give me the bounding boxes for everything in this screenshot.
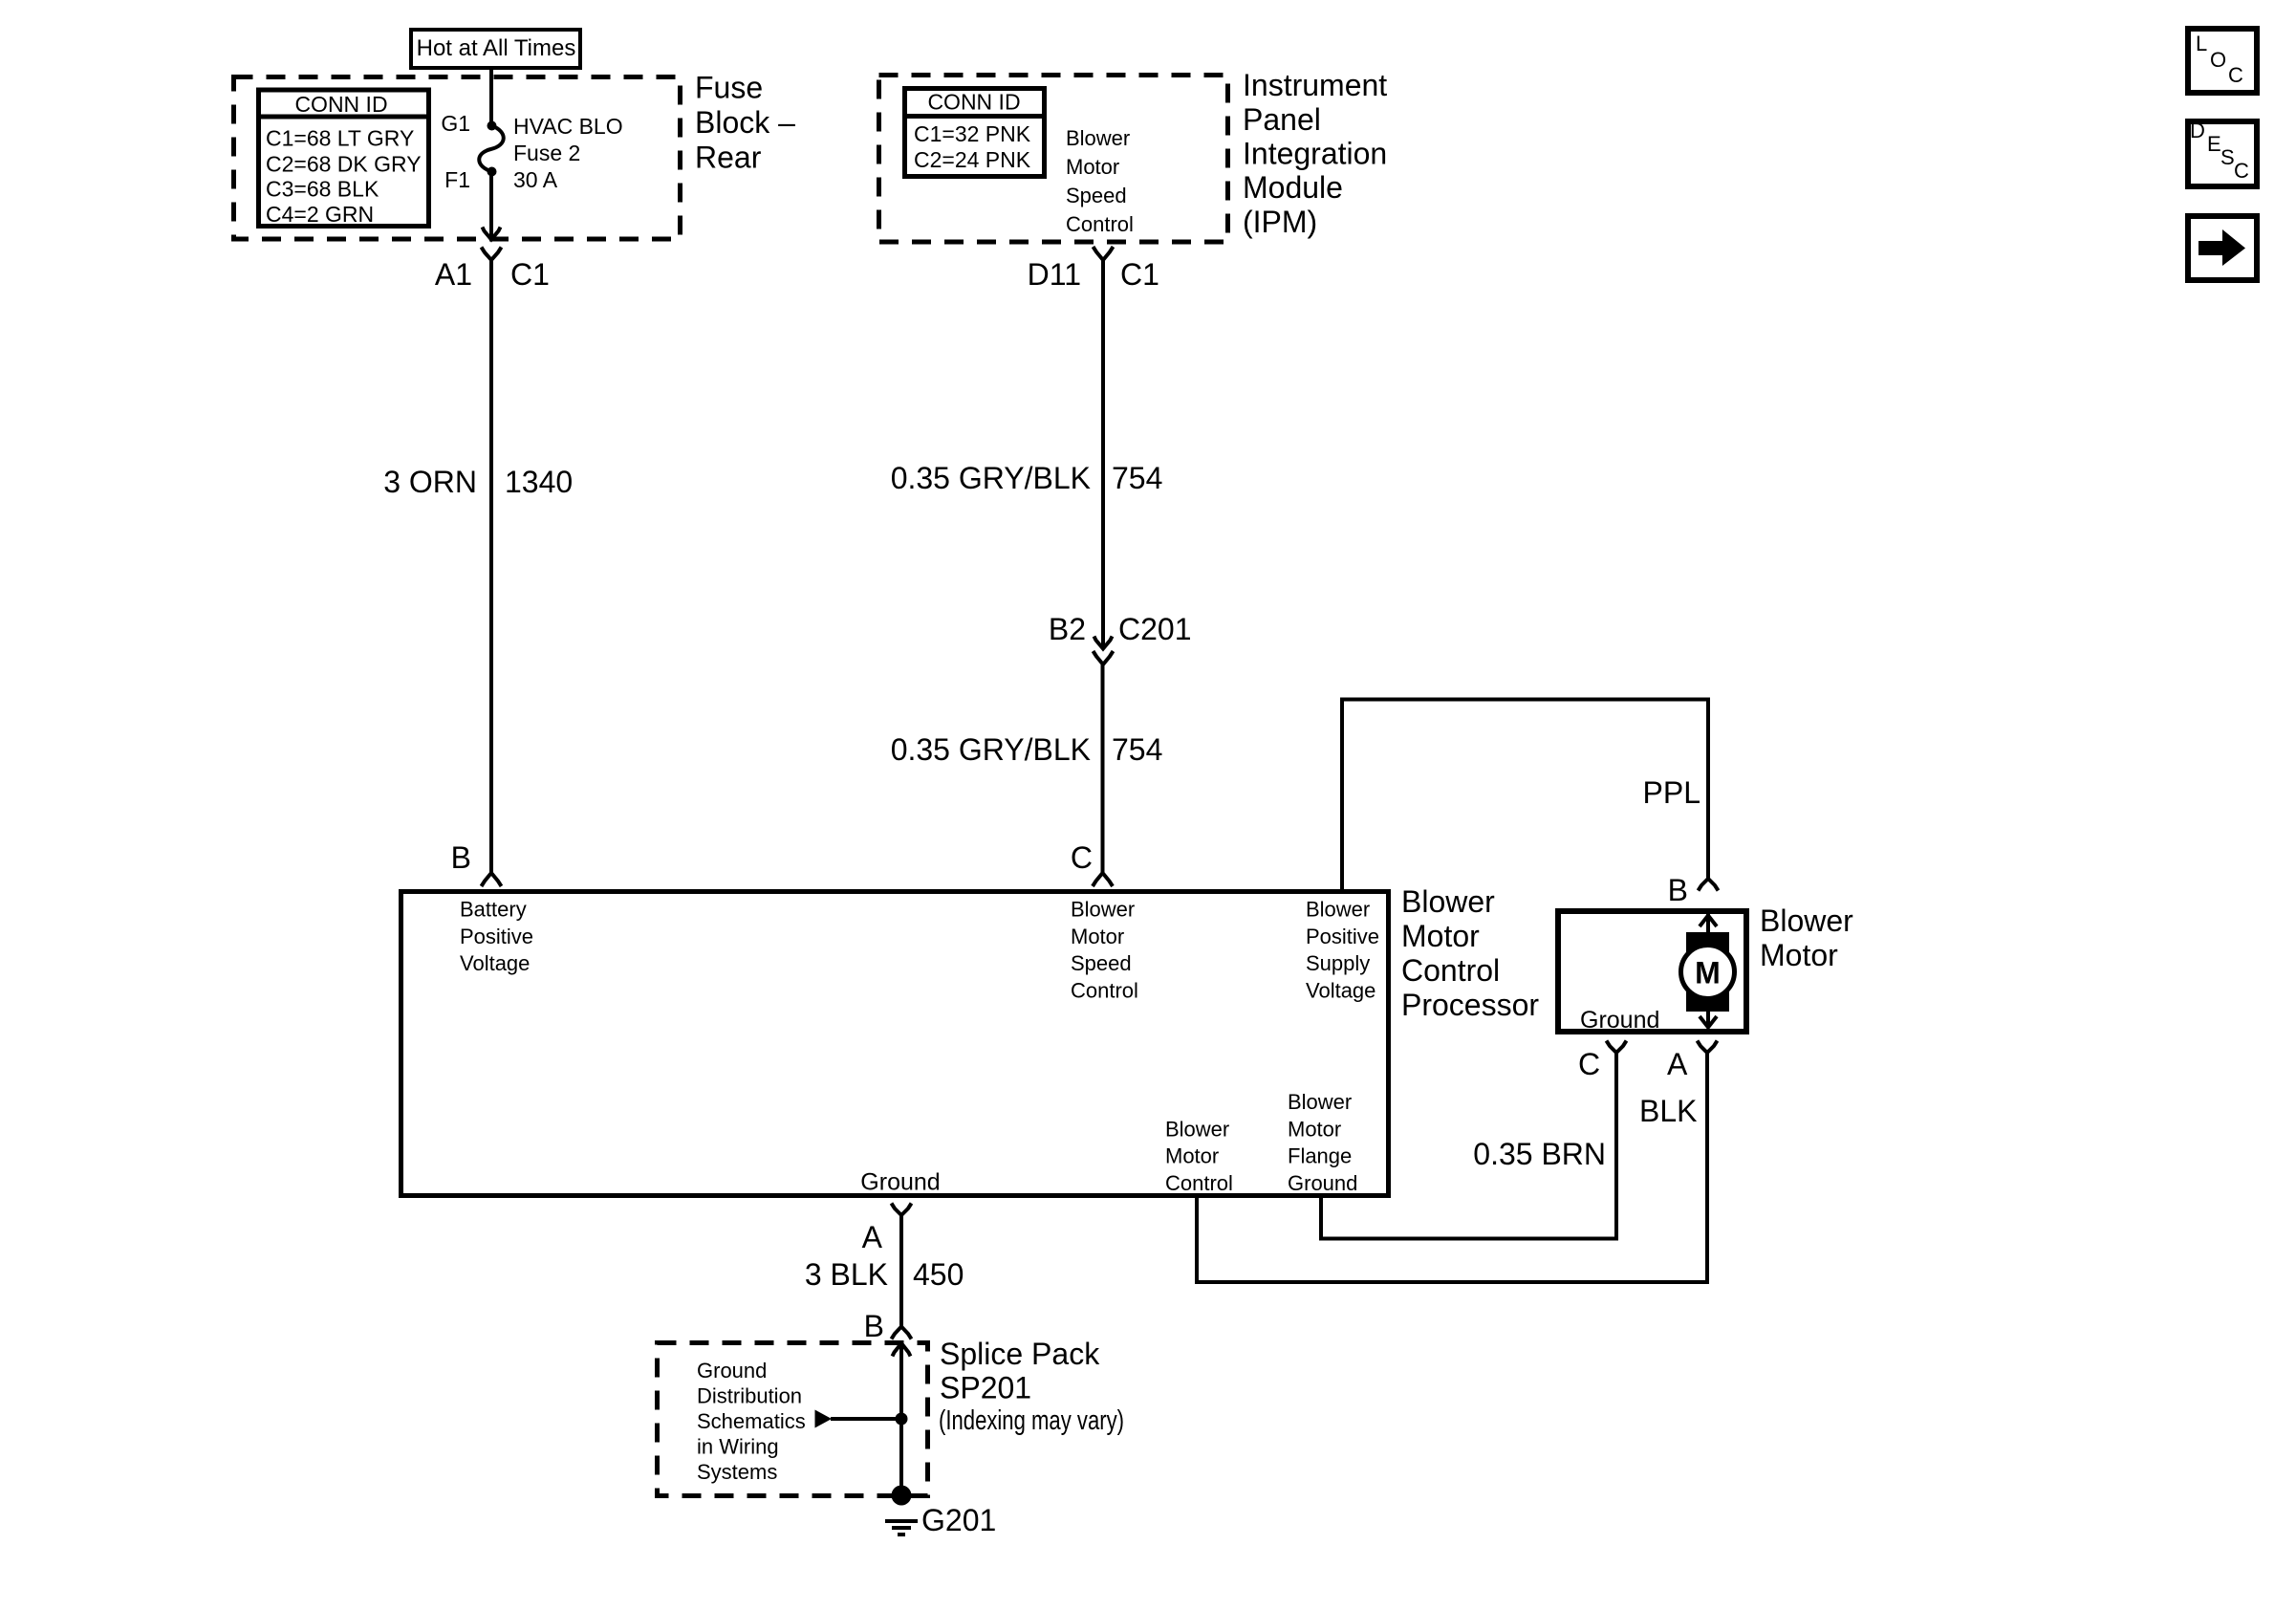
svg-text:B: B: [864, 1309, 884, 1343]
svg-text:L: L: [2196, 32, 2207, 55]
svg-text:Distribution: Distribution: [697, 1384, 802, 1408]
wire 1340 3 ORN: [489, 260, 493, 873]
wire inside splice pack: [899, 1343, 903, 1496]
svg-text:D11: D11: [1028, 257, 1081, 292]
processor module label: [1401, 884, 1539, 1022]
connector fork at blower motor pin C: [1607, 1041, 1627, 1054]
svg-text:O: O: [2210, 48, 2226, 72]
arrow into splice pack: [893, 1343, 911, 1357]
conn id table (IPM): [904, 89, 1045, 177]
svg-text:Splice Pack: Splice Pack: [940, 1337, 1100, 1371]
connector fork at processor ground pin A: [862, 1204, 912, 1255]
conn id table (fuse block): [258, 90, 429, 227]
svg-text:C: C: [1071, 840, 1093, 875]
svg-text:Control: Control: [1071, 978, 1138, 1002]
connector fork at processor pin B: [482, 873, 502, 886]
arrow out of fuse block: [483, 228, 501, 240]
connector C1 pin D11 (fork): [1028, 247, 1159, 292]
connector C1 pin A1 (fork): [435, 248, 550, 293]
svg-text:Positive: Positive: [460, 925, 533, 948]
svg-text:D: D: [2190, 119, 2205, 142]
blower motor control processor box: [401, 892, 1389, 1196]
svg-text:C4=2 GRN: C4=2 GRN: [266, 202, 374, 227]
svg-text:in Wiring: in Wiring: [697, 1435, 779, 1459]
instrument panel integration module (dashed box): [879, 76, 1228, 243]
svg-text:BLK: BLK: [1639, 1094, 1697, 1128]
forward arrow icon: [2188, 216, 2257, 280]
svg-text:3 BLK: 3 BLK: [805, 1257, 888, 1292]
svg-text:C1=68 LT GRY: C1=68 LT GRY: [266, 126, 414, 151]
svg-text:Supply: Supply: [1306, 951, 1370, 975]
fuse F2 HVAC BLO 30 A: [441, 111, 622, 192]
svg-text:Flange: Flange: [1288, 1144, 1352, 1168]
svg-text:M: M: [1695, 956, 1721, 991]
connector fork at splice pack: [892, 1327, 912, 1339]
svg-text:G1: G1: [441, 111, 470, 136]
svg-text:Battery: Battery: [460, 898, 527, 922]
inline connector C201 pin B2: [1049, 612, 1192, 664]
IPM label: [1243, 68, 1387, 239]
svg-text:Rear: Rear: [695, 141, 762, 175]
pin label battery positive voltage: [460, 898, 533, 976]
svg-text:C: C: [1578, 1047, 1600, 1081]
svg-text:Control: Control: [1165, 1171, 1233, 1195]
svg-text:A: A: [1667, 1047, 1688, 1081]
svg-text:450: 450: [913, 1257, 964, 1292]
svg-text:(Indexing may vary): (Indexing may vary): [939, 1405, 1124, 1436]
svg-text:Hot at All Times: Hot at All Times: [417, 35, 576, 61]
svg-text:Motor: Motor: [1071, 925, 1124, 948]
svg-text:S: S: [2220, 145, 2235, 169]
svg-text:Motor: Motor: [1760, 938, 1838, 972]
svg-text:30 A: 30 A: [513, 167, 558, 192]
svg-text:754: 754: [1112, 732, 1162, 767]
svg-text:CONN ID: CONN ID: [294, 92, 387, 117]
svg-text:CONN ID: CONN ID: [927, 90, 1020, 115]
fuse block rear module (dashed box): [234, 77, 681, 240]
wire 450 3 BLK: [899, 1215, 903, 1327]
svg-text:Ground: Ground: [1580, 1007, 1659, 1034]
connector fork at blower motor pin B: [1699, 879, 1719, 891]
svg-text:3 ORN: 3 ORN: [383, 465, 477, 499]
svg-text:Fuse: Fuse: [695, 71, 763, 105]
svg-text:Panel: Panel: [1243, 102, 1321, 137]
connector fork at processor pin C: [1093, 873, 1113, 886]
svg-text:SP201: SP201: [940, 1371, 1031, 1405]
svg-text:C1: C1: [1120, 257, 1159, 292]
svg-text:E: E: [2207, 132, 2221, 156]
svg-text:Blower: Blower: [1288, 1090, 1352, 1114]
svg-text:B: B: [451, 840, 471, 875]
svg-text:HVAC BLO: HVAC BLO: [513, 114, 623, 139]
svg-text:Module: Module: [1243, 170, 1343, 205]
svg-text:Motor: Motor: [1288, 1117, 1341, 1141]
junction node: [896, 1413, 908, 1426]
svg-text:Speed: Speed: [1071, 951, 1132, 975]
wire BLK from motor A to processor control pin: [1197, 1053, 1707, 1282]
connector fork at blower motor pin A: [1698, 1041, 1718, 1054]
svg-text:Voltage: Voltage: [460, 951, 530, 975]
svg-text:Motor: Motor: [1066, 155, 1119, 179]
svg-text:754: 754: [1112, 461, 1162, 495]
svg-text:Control: Control: [1401, 953, 1500, 988]
svg-text:C1: C1: [510, 257, 550, 292]
svg-text:Ground: Ground: [1288, 1171, 1357, 1195]
svg-text:Systems: Systems: [697, 1460, 777, 1484]
svg-text:C3=68 BLK: C3=68 BLK: [266, 177, 379, 202]
pin label blower motor flange ground: [1288, 1090, 1357, 1195]
svg-text:A1: A1: [435, 257, 472, 292]
wire from fuse to module edge: [489, 172, 493, 240]
svg-text:A: A: [862, 1220, 883, 1254]
svg-text:Schematics: Schematics: [697, 1409, 806, 1433]
svg-text:Integration: Integration: [1243, 137, 1387, 171]
svg-text:0.35 GRY/BLK: 0.35 GRY/BLK: [891, 732, 1091, 767]
svg-text:Speed: Speed: [1066, 184, 1127, 207]
svg-text:Processor: Processor: [1401, 988, 1539, 1022]
pin label blower motor speed control: [1071, 898, 1138, 1003]
pin label blower positive supply voltage: [1306, 898, 1379, 1003]
svg-text:Blower: Blower: [1165, 1117, 1229, 1141]
DESC icon: [2188, 119, 2257, 186]
LOC icon: [2188, 29, 2257, 93]
svg-text:Blower: Blower: [1066, 126, 1130, 150]
motor symbol M: [1681, 914, 1735, 1028]
wire PPL from supply pin to blower motor B: [1342, 700, 1708, 890]
svg-text:Motor: Motor: [1165, 1144, 1219, 1168]
svg-text:B2: B2: [1049, 612, 1086, 646]
reference triangle and tap wire: [815, 1410, 908, 1428]
svg-text:Blower: Blower: [1760, 903, 1853, 938]
wire 0.35 BRN from motor C to flange ground pin: [1321, 1053, 1616, 1239]
wire 754 GRY/BLK upper: [1101, 260, 1105, 648]
svg-text:Block –: Block –: [695, 105, 795, 140]
svg-text:Blower: Blower: [1071, 898, 1135, 922]
svg-text:C2=24 PNK: C2=24 PNK: [914, 147, 1031, 172]
blower motor speed control pin label (IPM): [1066, 126, 1134, 236]
svg-text:F1: F1: [444, 167, 470, 192]
svg-text:PPL: PPL: [1643, 775, 1700, 810]
svg-text:B: B: [1668, 873, 1688, 907]
wire from hot feed to fuse: [489, 68, 493, 126]
hot at all times feed box: [411, 30, 580, 68]
svg-text:Blower: Blower: [1401, 884, 1495, 919]
pin label blower motor control: [1165, 1117, 1233, 1195]
splice pack SP201 (dashed box): [658, 1343, 928, 1496]
svg-text:Control: Control: [1066, 212, 1134, 236]
svg-text:G201: G201: [921, 1503, 996, 1537]
svg-text:Motor: Motor: [1401, 919, 1480, 953]
svg-text:Ground: Ground: [697, 1359, 767, 1382]
svg-text:1340: 1340: [505, 465, 573, 499]
wire 754 GRY/BLK lower: [1101, 664, 1105, 873]
svg-text:Blower: Blower: [1306, 898, 1370, 922]
svg-text:Ground: Ground: [860, 1169, 940, 1196]
svg-text:Instrument: Instrument: [1243, 68, 1387, 102]
svg-text:Fuse 2: Fuse 2: [513, 141, 580, 165]
svg-text:0.35 GRY/BLK: 0.35 GRY/BLK: [891, 461, 1091, 495]
splice pack label: [939, 1337, 1124, 1436]
svg-text:C: C: [2234, 159, 2249, 183]
svg-text:(IPM): (IPM): [1243, 205, 1317, 239]
blower motor label: [1760, 903, 1853, 972]
ground distribution note: [697, 1359, 806, 1484]
svg-text:C201: C201: [1118, 612, 1192, 646]
fuse block label: [695, 71, 795, 175]
ground G201: [885, 1486, 996, 1538]
svg-text:C1=32 PNK: C1=32 PNK: [914, 121, 1031, 146]
svg-text:Positive: Positive: [1306, 925, 1379, 948]
svg-text:C: C: [2228, 63, 2243, 87]
svg-text:C2=68 DK GRY: C2=68 DK GRY: [266, 151, 422, 176]
svg-text:Voltage: Voltage: [1306, 978, 1375, 1002]
blower motor box: [1558, 911, 1746, 1032]
svg-text:0.35 BRN: 0.35 BRN: [1473, 1137, 1606, 1171]
